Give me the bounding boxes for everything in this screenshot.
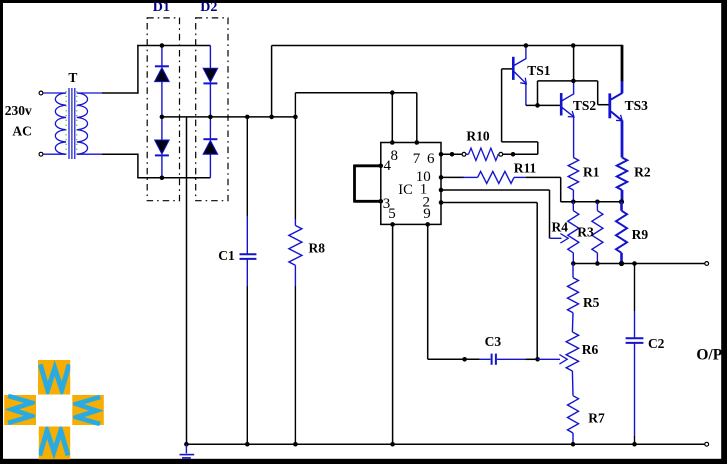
node middle rail at R8 branch	[293, 115, 298, 120]
potentiometer wiper arrow R6	[538, 355, 568, 365]
node D1 bottom junction	[160, 176, 165, 181]
svg-text:R8: R8	[309, 240, 326, 255]
wire C3 to wiper node	[525, 358, 537, 360]
diode D1 lower (pointing down)	[155, 117, 170, 178]
svg-text:R6: R6	[582, 342, 599, 357]
resistor R10	[466, 148, 498, 160]
wire transformer bottom to bridge bottom	[102, 154, 211, 178]
capacitor C2	[626, 264, 644, 445]
terminal output positive	[705, 262, 709, 266]
node IC pin 3	[379, 199, 384, 204]
svg-text:TS2: TS2	[573, 98, 597, 113]
node R3 bottom	[595, 261, 600, 266]
node D1 middle junction	[160, 115, 165, 120]
svg-text:D1: D1	[153, 0, 170, 15]
svg-text:230v: 230v	[5, 103, 32, 118]
svg-text:9: 9	[423, 206, 431, 222]
resistor R1	[568, 158, 578, 202]
node R4 bottom	[571, 261, 576, 266]
svg-text:R4: R4	[552, 220, 569, 235]
svg-text:IC: IC	[398, 182, 413, 198]
svg-text:TS1: TS1	[527, 63, 551, 78]
node IC pin 7 top	[415, 140, 420, 145]
capacitor C1	[240, 117, 257, 444]
svg-text:T: T	[68, 70, 77, 85]
wire IC pin 9 to C3	[428, 224, 480, 359]
potentiometer wiper arrow R4	[550, 234, 569, 244]
node ground rail at C1	[245, 442, 250, 447]
svg-text:C2: C2	[648, 336, 665, 351]
node ground rail at R8	[293, 442, 298, 447]
svg-text:4: 4	[383, 158, 391, 174]
wire middle DC rail	[162, 116, 296, 118]
node IC pin 8 top	[390, 140, 395, 145]
svg-text:R5: R5	[583, 295, 600, 310]
node TS2 collector on top rail	[571, 43, 576, 48]
IC left bracket pins 4-3	[355, 165, 381, 203]
wire top supply rail	[272, 45, 622, 82]
wire ground rail	[186, 443, 704, 445]
node R3 top	[595, 200, 600, 205]
wire from top rail down to middle rail	[271, 46, 273, 117]
svg-text:AC: AC	[12, 123, 32, 138]
resistor R2	[617, 158, 627, 202]
wire IC pin 5 to ground rail	[392, 224, 394, 444]
node TS2 collector junction	[571, 79, 576, 84]
transistor TS3	[610, 81, 623, 158]
resistor R9	[616, 202, 627, 264]
svg-text:5: 5	[388, 206, 396, 222]
resistor R5	[568, 264, 579, 313]
node IC pin 1	[439, 188, 444, 193]
wire node row below R1 R2	[561, 201, 622, 203]
svg-text:R10: R10	[466, 129, 489, 144]
node C3 right / pin2 junction	[535, 357, 540, 362]
node R9 bottom	[619, 261, 624, 266]
svg-text:R9: R9	[632, 227, 649, 242]
wire output top row	[573, 263, 704, 265]
dashed box D2	[196, 18, 228, 201]
svg-text:C3: C3	[485, 334, 502, 349]
capacitor C3	[480, 354, 525, 365]
node pin8 wire junction	[390, 90, 395, 95]
resistor R6 (potentiometer)	[566, 313, 578, 371]
wire horizontal feed to IC pins 8,7	[295, 93, 416, 143]
node TS1 emitter junction	[535, 103, 540, 108]
resistor R11	[463, 171, 526, 183]
transformer T	[43, 88, 102, 159]
diode D1 upper (pointing up)	[155, 46, 170, 117]
wire IC pin 10 to R11	[441, 176, 464, 178]
svg-text:R7: R7	[588, 411, 605, 426]
node R2 bottom	[619, 199, 624, 204]
transistor TS2	[561, 81, 574, 157]
wire vertical drop to ground rail	[186, 117, 188, 444]
node pin6 wire dot	[450, 152, 455, 157]
transformer T primary terminal bottom	[39, 152, 43, 156]
node middle rail at top-rail drop	[269, 115, 274, 120]
node R1 bottom	[571, 200, 576, 205]
svg-text:6: 6	[427, 151, 435, 167]
wire R11 to R1 bottom node	[526, 177, 574, 201]
transistor TS1	[513, 46, 526, 106]
wire IC pin 2 down to C3 node	[441, 203, 537, 360]
node D1 top junction	[160, 43, 165, 48]
wire IC pin 6 to R10	[441, 153, 462, 155]
terminal R10 right	[499, 152, 503, 156]
wire transformer top to D1/D2 top rail	[102, 45, 211, 94]
node ground rail at drop wire	[184, 442, 189, 447]
svg-text:R2: R2	[634, 164, 651, 179]
node IC pin 2	[439, 200, 444, 205]
terminal output negative	[705, 442, 709, 446]
diode D2 upper (pointing down)	[203, 46, 218, 117]
resistor R3	[592, 202, 603, 264]
node TS1 collector on top rail	[524, 43, 529, 48]
node ground rail at C2	[632, 442, 637, 447]
resistor R8	[289, 93, 302, 445]
node IC pin 9 bottom	[425, 222, 430, 227]
wire TS2 collector node to TS3 base	[538, 81, 610, 106]
svg-text:7: 7	[413, 151, 421, 167]
ground	[180, 444, 195, 458]
node C3 left wire junction	[462, 357, 467, 362]
svg-text:8: 8	[391, 148, 399, 164]
node R10 output dot	[511, 152, 516, 157]
svg-text:R11: R11	[514, 161, 537, 176]
wire TS1 emitter to TS2 base	[526, 104, 561, 106]
node ground rail at R7	[571, 442, 576, 447]
node D2 middle junction	[208, 115, 213, 120]
svg-text:O/P: O/P	[696, 346, 722, 363]
transformer T primary terminal top	[39, 91, 43, 95]
node middle rail at C1	[245, 115, 250, 120]
node IC pin 5 bottom	[390, 222, 395, 227]
node IC pin 6	[439, 152, 444, 157]
svg-text:TS3: TS3	[625, 98, 649, 113]
dashed box D1	[147, 18, 179, 201]
logo (four W squares)	[4, 360, 104, 459]
node IC pin 4	[379, 164, 384, 169]
svg-text:C1: C1	[218, 248, 235, 263]
resistor R4 (with wiper)	[568, 202, 579, 264]
terminal R10 left	[462, 152, 466, 156]
svg-text:D2: D2	[200, 0, 217, 15]
op-amp IC body	[381, 143, 441, 225]
wire R10 to TS1 base	[502, 69, 538, 154]
resistor R7	[568, 371, 579, 444]
node IC pin 10	[439, 175, 444, 180]
node ground rail at IC pin 5	[390, 442, 395, 447]
svg-text:R3: R3	[577, 224, 594, 239]
wire IC pin 1 to R4 wiper	[441, 190, 550, 238]
svg-text:R1: R1	[583, 164, 600, 179]
diode D2 lower (pointing up)	[203, 117, 218, 178]
wire TS2 collector to top rail	[573, 46, 575, 82]
node C2 top branch	[632, 261, 637, 266]
